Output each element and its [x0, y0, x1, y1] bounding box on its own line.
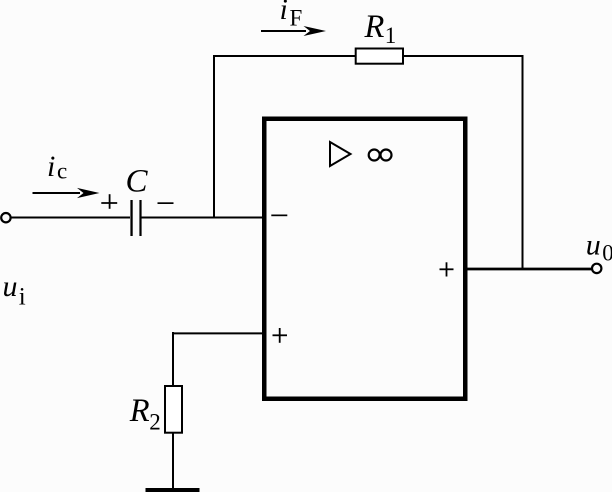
svg-text:i: i	[47, 150, 55, 183]
svg-text:R: R	[364, 9, 385, 45]
svg-text:i: i	[19, 284, 26, 311]
svg-text:2: 2	[149, 409, 161, 434]
svg-text:1: 1	[385, 23, 397, 48]
svg-text:F: F	[290, 6, 303, 31]
svg-text:u: u	[3, 270, 18, 303]
svg-text:i: i	[280, 0, 288, 26]
svg-text:u: u	[586, 228, 601, 261]
svg-text:c: c	[57, 159, 67, 184]
svg-text:C: C	[126, 164, 149, 200]
svg-text:0: 0	[602, 240, 612, 265]
svg-text:R: R	[129, 393, 150, 429]
